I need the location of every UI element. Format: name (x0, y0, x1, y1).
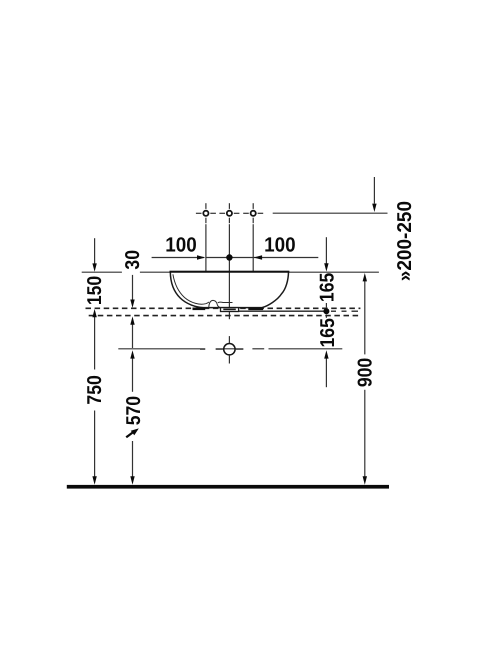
svg-text:165: 165 (317, 273, 339, 302)
svg-text:30: 30 (122, 250, 144, 270)
svg-text:900: 900 (354, 358, 376, 387)
svg-text:»200-250: »200-250 (394, 201, 416, 281)
svg-text:100: 100 (165, 234, 196, 257)
svg-text:100: 100 (264, 234, 295, 257)
svg-text:570: 570 (123, 396, 145, 425)
svg-text:750: 750 (84, 375, 106, 404)
svg-text:150: 150 (84, 276, 106, 305)
svg-text:165: 165 (317, 318, 339, 347)
